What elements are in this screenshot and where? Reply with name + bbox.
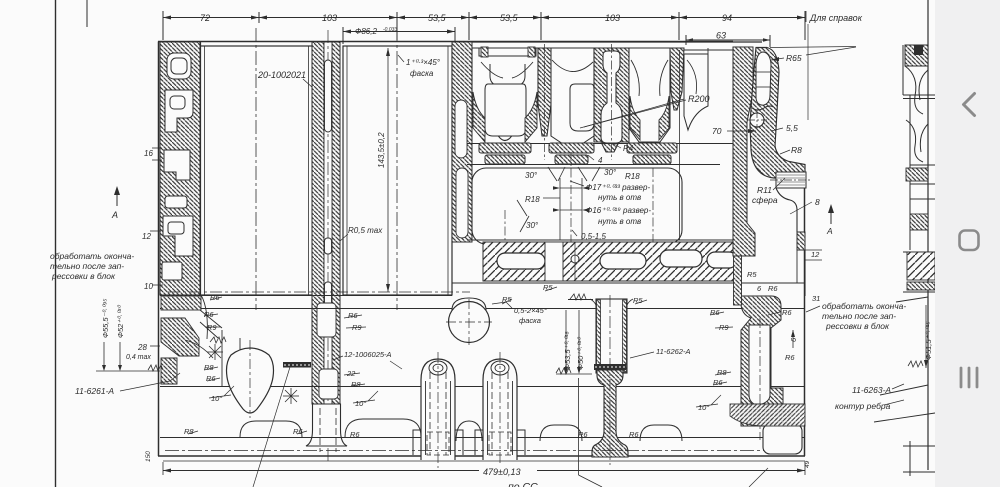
svg-text:103: 103 [605,13,620,23]
block left edge [158,42,160,457]
svg-text:R8: R8 [184,427,194,436]
svg-text:5,5: 5,5 [786,123,798,133]
partial seat pads [906,168,928,181]
svg-text:31: 31 [812,294,820,303]
port band top edges [452,41,762,43]
svg-text:R4: R4 [623,144,634,153]
svg-text:11-6262-А: 11-6262-А [656,347,690,356]
inner hatched wall [733,47,755,256]
block top edge [158,41,733,43]
dim 12 ticks right [805,249,822,251]
deck hatched band [483,242,741,281]
svg-text:R6: R6 [782,308,792,317]
30 degree vees [517,167,600,232]
svg-text:R18: R18 [525,195,540,204]
rail bottom line [160,437,805,439]
wall 2 between cylinders [283,30,347,462]
leader lines for radii [204,297,222,327]
bowl 3 [629,48,670,142]
left wall hatched [160,42,200,295]
svg-text:30°: 30° [525,171,538,180]
deck slots [497,250,737,269]
10 deg angle marks [209,386,234,398]
note text left [50,251,134,281]
bore1 centerline [255,28,257,310]
svg-text:Ф51,5⁺⁰·⁰¹⁶: Ф51,5⁺⁰·⁰¹⁶ [924,321,933,360]
svg-text:фаска: фаска [519,316,541,325]
block bottom edge [158,455,805,457]
svg-text:R6: R6 [768,284,778,293]
svg-text:30°: 30° [526,221,539,230]
bowl1 pedestal [485,84,526,136]
dia16 dim arrows [560,209,582,211]
svg-text:0,4 max: 0,4 max [126,354,151,361]
left wall inner edge [200,42,202,295]
svg-text:R6: R6 [629,430,639,439]
svg-text:тельно после зап-: тельно после зап- [822,311,896,321]
web trapezoid hatched [670,48,684,110]
svg-text:рессовки в блок: рессовки в блок [51,271,116,281]
bowl1 top rail with end blocks [479,47,536,57]
svg-text:1⁺⁰·³×45°: 1⁺⁰·³×45° [406,58,441,67]
web spire hatched [538,48,551,136]
seat serration marks [570,294,586,300]
bore2 depth dim 143.5 [387,48,389,292]
nav home squircle [960,231,979,251]
lower hatched band right [730,404,805,426]
top chain labels [200,13,863,41]
partial view left lines [902,45,904,95]
svg-text:R6: R6 [578,430,588,439]
svg-text:фаска: фаска [410,69,434,78]
dia 86.2 dimension [343,31,455,33]
svg-text:R65: R65 [786,53,802,63]
svg-text:обработать оконча-: обработать оконча- [822,301,906,311]
sheet frame line [55,0,57,487]
leaders [584,24,856,214]
svg-text:12: 12 [142,232,151,241]
svg-text:Ф86,2: Ф86,2 [355,27,377,36]
svg-text:103: 103 [322,13,337,23]
partial serration [908,361,923,367]
long leader to lower sheet [253,367,290,487]
sheet fold line [86,0,88,27]
svg-text:нуть в отв: нуть в отв [598,193,641,202]
stud boss 2 [483,359,517,460]
svg-text:11-6261-А: 11-6261-А [75,386,114,396]
bowl1 funnel cup [490,64,525,86]
bowl 4 pocket [684,54,708,130]
lower right hatched mass [741,296,793,426]
white T pillar right [749,325,770,404]
svg-text:по СС: по СС [508,481,538,487]
seal strip dark [594,364,626,370]
svg-text:R6: R6 [713,378,723,387]
section arrow A right [830,208,832,224]
tick before Для справок [805,11,807,22]
tappet bore axes [505,152,653,248]
svg-text:R11: R11 [757,185,772,195]
star symbol 2 [283,388,299,404]
seat serration left [148,365,163,371]
svg-text:70: 70 [712,126,722,136]
port bowl 1 [472,48,538,141]
svg-text:тельно после зап-: тельно после зап- [50,261,124,271]
svg-text:R6: R6 [348,311,358,320]
top dimension chain line [163,17,805,19]
thread boss [770,172,810,188]
partial deck hatch [907,252,935,280]
svg-text:Ф55,5⁻⁰·⁰⁹⁵: Ф55,5⁻⁰·⁰⁹⁵ [101,298,110,338]
gap lines to right wall [707,48,709,106]
bowl1 side wedges hatched [473,92,485,142]
star symbol left [207,344,223,360]
wall2 seal strip [283,362,311,368]
nav back chevron [964,94,975,116]
rail dash-dot centerline [165,450,803,452]
main outline [158,42,805,462]
center bottle stem white [601,51,622,143]
svg-text:20-1002021: 20-1002021 [257,70,306,80]
right text block [822,301,906,411]
main bearing boss 11-6262 [568,294,633,465]
left flange hatch patches [161,296,201,310]
partial bottom [909,441,911,476]
dim 63 [686,39,770,41]
svg-text:R6: R6 [206,374,216,383]
dim extension to section leader [578,378,580,475]
svg-text:479±0,13: 479±0,13 [483,467,520,477]
svg-text:R6: R6 [293,427,303,436]
wall3 lower pocket [456,168,468,238]
svg-text:Ф16⁺⁰·⁰¹⁹ развер-: Ф16⁺⁰·⁰¹⁹ развер- [586,206,651,215]
bowl3 side wedges hatched [630,96,640,140]
svg-text:-0,033: -0,033 [383,27,397,33]
svg-text:53,5: 53,5 [500,13,519,23]
svg-text:94: 94 [722,13,732,23]
479 dimension [163,470,805,472]
rail lines under seats [467,143,733,145]
wall3 pocket [455,100,467,158]
svg-text:А: А [111,210,118,220]
svg-text:Ф52⁺⁰·⁰³⁰: Ф52⁺⁰·⁰³⁰ [116,305,125,338]
svg-text:Ф53,5⁺⁰·⁰¹⁸: Ф53,5⁺⁰·⁰¹⁸ [563,331,572,370]
svg-text:R200: R200 [688,94,710,104]
small circle detail R9 [752,331,763,342]
bore2 centerline [396,28,398,310]
svg-text:0,5-2×45°: 0,5-2×45° [514,306,547,315]
skirt arches [240,419,682,441]
water hole circle [452,298,486,310]
water jacket teardrop [227,348,274,413]
svg-text:30°: 30° [604,168,617,177]
svg-text:R6: R6 [710,308,720,317]
reamed hole edges [560,178,582,240]
deck white gaps [545,242,563,281]
dark insert [914,45,923,55]
svg-text:Ф17⁺⁰·⁰³³ развер-: Ф17⁺⁰·⁰³³ развер- [586,183,650,192]
dia17 dim arrows [560,187,582,189]
svg-text:R9: R9 [207,323,217,332]
left boss sloped lines [185,295,240,386]
svg-text:R8: R8 [791,145,802,155]
svg-text:R6: R6 [350,430,360,439]
svg-text:R8: R8 [717,368,727,377]
bowl1 petal curves [481,62,533,78]
valve seat pads row2 [485,155,525,164]
bowl 2 (middle white) [551,48,594,144]
svg-text:R5: R5 [633,296,643,305]
svg-text:10°: 10° [698,403,709,412]
block right edge [804,164,806,456]
partial top hatched block [905,45,928,66]
T pillar below (hatched) [592,370,628,457]
svg-text:12: 12 [811,250,820,259]
bore 1 (cylinder) [201,46,313,295]
wall2 base pillar [306,404,347,446]
vertical dim 6 arrow [792,330,794,348]
bolt hole [750,113,764,127]
bore 2 (cylinder) [343,46,452,295]
svg-text:143,5±0,2: 143,5±0,2 [377,132,386,168]
stud centerlines [437,352,439,468]
svg-text:сфера: сфера [752,195,778,205]
svg-text:8: 8 [815,197,820,207]
lower deck line [160,308,805,310]
tappet chamber outline [472,168,682,244]
wall 3 hatched [452,42,472,242]
rib contour vertical line [679,50,681,240]
wall2 center slot [324,42,332,404]
svg-text:4: 4 [598,156,603,165]
svg-text:R5: R5 [747,270,757,279]
svg-text:10°: 10° [211,394,222,403]
valve seat pads row1 [479,143,531,153]
svg-text:R6: R6 [785,353,795,362]
svg-text:Ф50⁺⁰·⁰³⁰: Ф50⁺⁰·⁰³⁰ [576,337,585,370]
svg-text:Для справок: Для справок [809,13,863,23]
svg-text:контур ребра: контур ребра [835,401,891,411]
svg-text:49: 49 [804,460,811,468]
left wall pockets [162,53,193,280]
deck bottom line [452,282,805,284]
skirt rail top line [160,386,805,388]
nav recents bars [961,368,977,387]
stud boss 1 [421,359,455,460]
svg-text:16: 16 [144,149,153,158]
lower step [797,232,805,250]
leader 12-1006025 [390,361,402,369]
center stem complex hatched [594,48,629,152]
leader 0,5-2x45 [492,302,512,308]
svg-text:28: 28 [137,343,147,352]
extension ticks of top chain [162,11,164,40]
sphere fillet R11 [776,188,797,232]
android navigation bar [935,0,1000,487]
port area dim texts [525,144,651,241]
svg-text:53,5: 53,5 [428,13,447,23]
wall strip extension [734,256,742,305]
svg-text:10°: 10° [355,399,366,408]
svg-text:63: 63 [716,31,726,41]
partial bowl curves [905,66,928,162]
svg-text:А: А [826,226,833,236]
head inner pocket [756,52,771,105]
svg-text:R18: R18 [625,172,640,181]
svg-text:12-1006025-А: 12-1006025-А [344,350,392,359]
svg-text:10: 10 [144,282,153,291]
partial horizontal lines [903,95,935,292]
left chamfer marks [210,337,226,343]
svg-text:рессовки в блок: рессовки в блок [825,321,890,331]
svg-text:обработать оконча-: обработать оконча- [50,251,134,261]
svg-text:нуть в отв: нуть в отв [598,217,641,226]
svg-text:R5: R5 [543,283,553,292]
crank axis dash-dot [168,291,470,293]
wall2 lower pockets [317,303,338,399]
svg-text:R8: R8 [204,363,214,372]
flange band (neck + arm) hatched [750,48,805,179]
partial sloped lines [874,297,935,422]
bore bottom lines [160,295,452,297]
partial view right edge line [927,0,929,470]
svg-text:R0,5 max: R0,5 max [348,226,383,235]
svg-text:150: 150 [145,451,152,462]
dim arrows top chain [163,16,805,20]
bottom right pocket [763,424,802,454]
svg-text:72: 72 [200,13,210,23]
section arrow A left [116,190,118,206]
